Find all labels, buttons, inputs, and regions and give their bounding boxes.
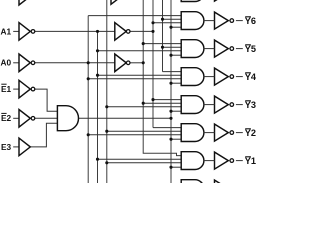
bubble out Y5 (230, 47, 234, 51)
node dot /A2 Y1 (105, 161, 108, 164)
wire Y3 (204, 104, 215, 106)
inverter A2 first stage (partial, cut at top) (19, 0, 30, 5)
node A2 vertical bus (162, 0, 164, 72)
inverter U2 A0 first stage (19, 54, 30, 72)
node dot A1 Y6 (151, 21, 154, 24)
node dot A2 Y5 (161, 46, 164, 49)
node /A0 vertical bus (87, 16, 89, 183)
wire Y6 input feeds (88, 15, 181, 17)
inverter out Y5 (215, 40, 229, 57)
wire enable AND output to E bus (79, 117, 172, 119)
wire Y4 (204, 76, 215, 78)
junction dots (87, 18, 173, 169)
output bubbles (230, 19, 234, 163)
wire Y4 input feeds (163, 71, 182, 73)
inverter out Y2 (215, 124, 229, 141)
bubble out Y6 (230, 19, 234, 23)
node dot E Y3 (169, 110, 172, 113)
node dot /A2 Y2 (105, 130, 108, 133)
wire Y6 output dash (236, 20, 243, 22)
wire Y5 output dash (236, 48, 243, 50)
and-gate Y3 (181, 96, 204, 114)
and-gate Y7 (partial, cut at top) (181, 0, 204, 2)
wire E1 inverter output jog to AND (35, 89, 57, 111)
node dot A1 source (151, 30, 154, 33)
wire Y1 (204, 160, 215, 162)
node dot /A1 source (96, 30, 99, 33)
wire Y2 (204, 132, 215, 134)
wire Y4 output dash (236, 76, 243, 78)
wire A0 input stub (13, 62, 19, 64)
svg-text:Y4: Y4 (245, 72, 257, 82)
wire E2 input stub (13, 117, 19, 119)
node dot A0 source (142, 61, 145, 64)
inverter U3 E1 (19, 80, 30, 98)
node dot E Y1 (169, 166, 172, 169)
node dot /A0 source (87, 61, 90, 64)
node dot /A2 Y3 (105, 105, 108, 108)
wire Y5 input feeds (143, 43, 181, 45)
wire Y3 output dash (236, 104, 243, 106)
wire Y1 output dash (236, 160, 243, 162)
inverter out Y7 (partial) (215, 0, 229, 1)
node dot /A1 Y5 (96, 49, 99, 52)
node dot E Y6 (169, 26, 172, 29)
node dot E Y5 (169, 54, 172, 57)
gates (19, 0, 126, 156)
wire Y1 input feeds (98, 158, 182, 160)
inverter U7 A0 second stage (115, 54, 126, 72)
node dot /A0 Y2 (87, 133, 90, 136)
node dot A0 Y3 (142, 102, 145, 105)
wire Y2 output dash (236, 132, 243, 134)
inverter out Y4 (215, 68, 229, 85)
right side AND gates + output inverters (181, 0, 228, 198)
bubble E2 (31, 117, 35, 121)
node dot A2 Y6 (161, 18, 164, 21)
wire A1 input stub (13, 30, 19, 32)
wire E2 inverter output to AND (35, 117, 57, 119)
node dot E Y2 (169, 138, 172, 141)
wire Y6 and to inverter (204, 20, 215, 22)
svg-text:A1: A1 (1, 26, 12, 36)
inverter U4 E2 (19, 110, 30, 128)
inverter U1 A1 first stage (19, 23, 30, 41)
and-gate Y5 (181, 40, 204, 58)
svg-text:Y3: Y3 (245, 100, 256, 110)
wire Y2 input feeds (153, 127, 181, 129)
node dot E Y4 (169, 82, 172, 85)
buffer U5 E3 (19, 138, 30, 156)
bubble out Y1 (230, 159, 234, 163)
node /A1 vertical bus (97, 31, 99, 183)
bubble out Y3 (230, 103, 234, 107)
node dot /A0 Y4 (87, 77, 90, 80)
and-gate G-E enable (57, 106, 78, 131)
inverter U6 A1 second stage (115, 23, 126, 41)
node dot A1 Y3 (151, 98, 154, 101)
svg-text:Y2: Y2 (245, 128, 256, 138)
svg-text:Y5: Y5 (245, 44, 256, 54)
svg-text:A0: A0 (1, 58, 12, 68)
svg-text:E3: E3 (1, 142, 12, 152)
wire E3 input stub (13, 146, 19, 148)
bubble A0 second (126, 61, 130, 65)
wire A1 inverter output to second inverter (35, 30, 115, 32)
input bubbles (31, 30, 130, 121)
svg-text:Y6: Y6 (245, 16, 256, 26)
node A0 vertical bus with jog to Y1 (143, 0, 181, 156)
bubble A1 (31, 30, 35, 34)
inverter out Y0 (partial) (215, 180, 229, 197)
svg-text:Y1: Y1 (245, 156, 256, 166)
wire A0 second inverter output to A0 bus (130, 62, 143, 64)
node dot /A1 Y4 (96, 74, 99, 77)
inverter out Y6 (215, 12, 229, 29)
wire E3 buffer output jog to AND (30, 123, 57, 147)
node dot E source (169, 117, 172, 120)
svg-text:E1: E1 (1, 84, 12, 94)
node /A2 vertical bus (106, 0, 108, 183)
node dot A0 Y5 (142, 42, 145, 45)
and-gate Y0 (partial, cut at bottom) (181, 180, 204, 198)
bubble A1 second (126, 30, 130, 34)
wire E1 input stub (13, 88, 19, 90)
inverter A2 second stage (partial, cut at top) (111, 0, 122, 4)
bubble E1 (31, 87, 35, 91)
and-gate Y2 (181, 124, 204, 142)
and-gate Y4 (181, 68, 204, 86)
inverter out Y3 (215, 96, 229, 113)
bubble A0 (31, 61, 35, 65)
node dot /A1 Y1 (96, 158, 99, 161)
node E enable vertical bus (170, 0, 172, 183)
bubble out Y4 (230, 75, 234, 79)
node A1 vertical bus (152, 0, 154, 128)
svg-text:E2: E2 (1, 113, 12, 123)
inverter out Y1 (215, 152, 229, 169)
wire A0 inverter output to second inverter (35, 62, 115, 64)
and-gate Y6 (181, 12, 204, 30)
AND output wires to inverters (204, 21, 243, 161)
wire Y3 input feeds (153, 99, 181, 101)
wire A1 second inverter output to A1 bus (130, 30, 153, 32)
and-gate Y1 (181, 152, 204, 170)
bubble out Y2 (230, 131, 234, 135)
wire Y5 (204, 48, 215, 50)
